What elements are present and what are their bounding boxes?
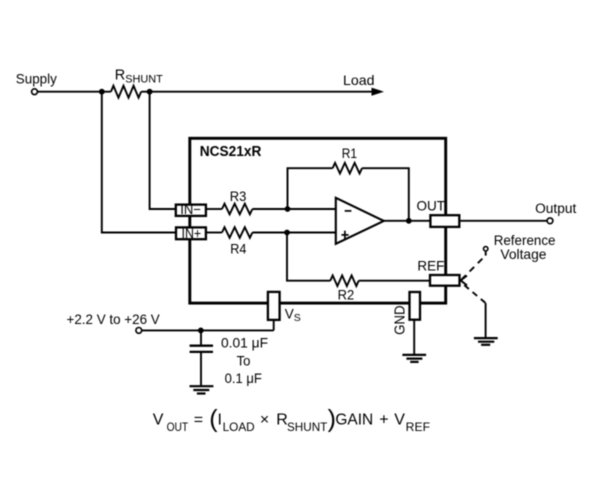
svg-text:Load: Load: [343, 72, 375, 88]
svg-text:I: I: [218, 411, 222, 428]
svg-text:NCS21xR: NCS21xR: [200, 144, 262, 160]
svg-text:To: To: [237, 352, 251, 368]
svg-text:0.1 μF: 0.1 μF: [225, 370, 262, 386]
svg-text:IN+: IN+: [182, 225, 202, 241]
svg-text:R4: R4: [230, 241, 246, 257]
svg-text:SHUNT: SHUNT: [287, 420, 328, 434]
svg-text:+: +: [379, 411, 388, 428]
svg-text:Output: Output: [535, 201, 576, 216]
svg-text:GAIN: GAIN: [335, 411, 373, 428]
svg-text:=: =: [194, 411, 203, 428]
svg-text:R2: R2: [338, 287, 355, 303]
svg-text:V: V: [394, 411, 405, 428]
svg-text:0.01 μF: 0.01 μF: [221, 335, 268, 351]
svg-text:IN−: IN−: [180, 201, 201, 217]
svg-text:Voltage: Voltage: [500, 247, 546, 262]
svg-text:REF: REF: [406, 420, 430, 434]
svg-text:×: ×: [260, 411, 269, 428]
svg-text:LOAD: LOAD: [223, 420, 255, 434]
svg-text:GND: GND: [393, 305, 409, 335]
svg-text:Supply: Supply: [16, 70, 57, 86]
svg-text:+2.2 V to +26 V: +2.2 V to +26 V: [67, 311, 161, 327]
svg-text:OUT: OUT: [417, 198, 446, 214]
svg-text:R1: R1: [342, 145, 357, 161]
svg-text:V: V: [153, 411, 164, 428]
svg-text:OUT: OUT: [167, 420, 189, 434]
svg-text:R3: R3: [230, 188, 247, 204]
svg-text:REF: REF: [417, 257, 444, 273]
